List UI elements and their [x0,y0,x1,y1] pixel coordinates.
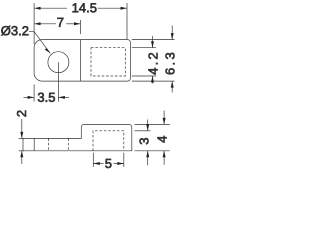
svg-text:14.5: 14.5 [72,0,97,15]
extension line boss bottom (4.2 bottom) [132,75,157,77]
dimension 7 line [34,22,80,25]
dimension 6.3 [171,26,174,93]
hidden boss rectangle (top view, dashed) [91,48,125,76]
dimension 4 [163,111,166,165]
top view plate outline [34,40,130,82]
top view step feature line [80,40,82,82]
dimension 3 [146,120,149,166]
svg-text:3.5: 3.5 [37,90,55,105]
svg-text:4.2: 4.2 [145,50,160,75]
extension ticks for 2 [19,137,25,139]
svg-text:2: 2 [14,110,29,117]
extension line right (7) [80,20,82,34]
side view joint line [33,138,35,150]
extension line right (14.5) [126,3,128,39]
hole circle Ø3.2 [48,52,69,73]
side view outline [23,124,132,150]
svg-text:Ø3.2: Ø3.2 [1,23,29,38]
dimension 3.5 [24,96,69,99]
leader line [29,31,51,53]
dimension 5 [93,162,124,165]
extension ticks for 5 [92,153,94,167]
extension line top edge (6.3 top) [132,39,175,41]
extension line bottom (3/4 bottom) [135,150,170,152]
side view hidden hole edge right [67,138,69,150]
extension line bottom edge (6.3 bottom) [132,80,175,82]
extension line left (14.5/7) [33,3,35,44]
dimension 14.5 line [34,7,127,10]
svg-text:6.3: 6.3 [162,50,177,75]
extension line boss top (4.2 top) [132,47,156,49]
side view hidden boss (dashed) [93,131,124,151]
svg-text:7: 7 [57,15,64,30]
hole center line down [57,62,59,101]
extension line body top (4 top) [135,123,170,125]
dimension 2 [20,119,23,164]
svg-text:4: 4 [155,136,170,143]
svg-text:5: 5 [105,156,112,171]
extension line left (3.5) [33,85,35,102]
dimension 4.2 [151,36,154,84]
extension line boss top (3 top) [135,130,151,132]
svg-text:3: 3 [137,138,152,145]
side view hidden hole edge left [47,138,49,150]
leader arrowhead [45,48,51,53]
